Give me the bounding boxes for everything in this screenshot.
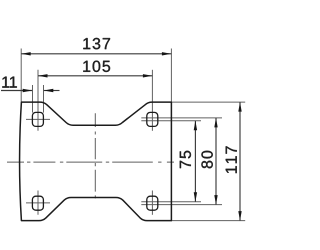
arrow 75 bottom [194,192,197,202]
arrow 11 left (points right) [23,89,33,92]
slot BL horizontal centerline [26,202,50,204]
dimension line 11 left part [1,90,32,92]
arrow 80 top [214,118,217,128]
dimension line 80 [215,118,217,205]
arrow 105 right [143,74,153,77]
arrow 137 right [162,52,172,55]
slot TL [32,112,43,126]
label 105 [83,61,110,72]
extension line 75 bottom (slot BR upper arc center) [141,201,201,203]
plate outline [20,102,172,221]
horizontal main centerline [7,161,174,163]
slot TL horizontal centerline [26,118,50,120]
vertical main centerline [94,113,96,198]
arrow 137 left [21,52,31,55]
extension line 117 bottom [171,220,245,222]
label 11 [2,77,17,88]
label 137 [83,38,110,49]
slot BR [147,196,158,210]
extension line 105 right / slot TR vertical centerline [151,70,153,131]
arrow 105 left [38,74,48,77]
extension line 137 left [20,49,22,102]
arrow 75 top [194,121,197,131]
arrow 80 bottom [214,195,217,205]
extension line 80 bottom (slot BR lower arc center) [141,204,222,206]
slot TR [147,112,158,126]
arrow 117 top [238,102,241,112]
label 75 (rotated) [180,151,191,168]
dimension line 137 [21,53,171,55]
slot BR vertical centerline [151,191,153,215]
extension line 105 left / slot TL vertical centerline [37,70,39,131]
dimension line 105 [38,75,152,77]
thin extension / centerline group [21,49,245,221]
extension line 80 top (slot TR upper arc center) [141,117,222,119]
arrow 117 bottom [238,211,241,221]
dimension line 75 [194,121,196,202]
dimension line 117 [239,102,241,221]
arrow 11 right (points left) [44,89,54,92]
extension line 137 right [170,49,172,102]
label 117 (rotated) [226,146,237,173]
extension line 117 top [171,101,245,103]
dimension lines group [1,54,240,221]
extension line 11 left (slot left edge) [32,85,34,113]
dimension line 11 right part [44,90,60,92]
extension line 11 right (slot right edge) [43,85,45,113]
arrowheads [21,52,242,221]
label 80 (rotated) [201,151,212,168]
extension line 75 top (slot TR lower arc center) [141,120,201,122]
slot BL [32,196,43,210]
slot BL vertical centerline [37,191,39,215]
